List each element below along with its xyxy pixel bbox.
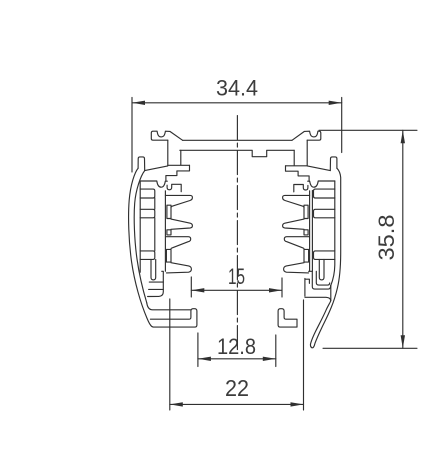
svg-text:35.8: 35.8 [374,215,399,261]
svg-text:15: 15 [228,264,245,289]
right neck wall [307,140,330,170]
left jaw rung upper [149,281,163,283]
right housing top [308,181,335,187]
left conductor 1 [167,205,171,218]
left ear (mounting hook) [151,131,182,140]
profile top surface [183,139,292,141]
dimension 34.4 dimension line [132,101,342,105]
dimension 15 dimension line [191,288,282,292]
left ceiling step [168,150,190,165]
right conductor 3 [304,249,309,262]
extension line left of 34.4 [131,98,133,173]
extension line right of 22 [303,300,305,410]
left comb rail segment 2 [154,218,156,251]
left housing tab 2 [140,209,155,218]
left hanging finger [151,259,156,280]
right housing tab 3 [314,251,335,260]
centerline (dash-dot) [236,116,238,353]
left comb spine [164,191,166,271]
right ear (mounting hook) [292,131,321,140]
left jaw rung lower [149,288,164,290]
left outer wall (outer surface) [129,168,151,325]
left outer wall (inner surface) [134,171,147,303]
right shelf and J-wall [309,271,331,289]
left housing tab 3 [140,251,155,260]
right fin C [284,237,309,249]
left housing wall [139,181,141,272]
extension line right of 34.4 [341,98,343,153]
svg-text:34.4: 34.4 [216,76,258,101]
left wing [138,157,145,171]
right fin A [283,195,310,207]
extension tick right of 15 [281,278,283,297]
right fin B [283,219,304,229]
right insulator hook [294,185,308,192]
inner ceiling with center notch [180,150,294,156]
extension tick left of 15 [190,277,192,297]
extension line left of 12.8 [197,333,199,367]
svg-text:12.8: 12.8 [217,334,256,359]
left conductor 2 [167,230,171,235]
right J inner line [316,271,329,285]
extension line left of 22 [169,299,171,410]
right conductor 1 [304,205,308,218]
right hanging jaw staircase [286,166,310,182]
extension line right of 12.8 [275,335,277,367]
right conductor 2 [304,230,308,235]
svg-text:22: 22 [225,375,249,401]
left comb rail segment 1 [154,198,156,209]
right nose [330,157,337,171]
right ceiling step [286,150,308,166]
extension line bottom of 35.8 [323,347,417,349]
right comb spine [309,191,311,271]
left conductor 3 [166,249,171,262]
bottom-left lip [150,309,197,327]
extension line top of 35.8 [319,129,417,131]
left housing tab 1 [140,189,155,198]
right web to tail [305,297,331,300]
dimension 22 dimension line [170,402,304,406]
left shelf and jaw [148,271,164,296]
bottom-left lip ridge [147,303,191,310]
right jaw [305,279,310,297]
dimension 12.8 dimension line [198,357,276,361]
right housing tab 1 [314,189,335,198]
left fin A [165,195,192,207]
left fin B [171,219,192,229]
left fin D [166,263,191,273]
left neck wall [145,140,168,170]
right wall outer surface and tail [310,168,340,348]
right fin D [284,263,309,273]
right hanging finger [319,259,324,280]
dimension 35.8 dimension line [401,130,405,348]
right housing wall [331,181,335,285]
right housing tab 2 [314,209,335,218]
right comb rail [311,191,313,272]
left hanging jaw staircase [166,165,190,181]
left insulator hook [167,184,181,191]
bottom-right lip [278,309,297,327]
left fin C [166,237,191,249]
left housing top [140,181,167,187]
